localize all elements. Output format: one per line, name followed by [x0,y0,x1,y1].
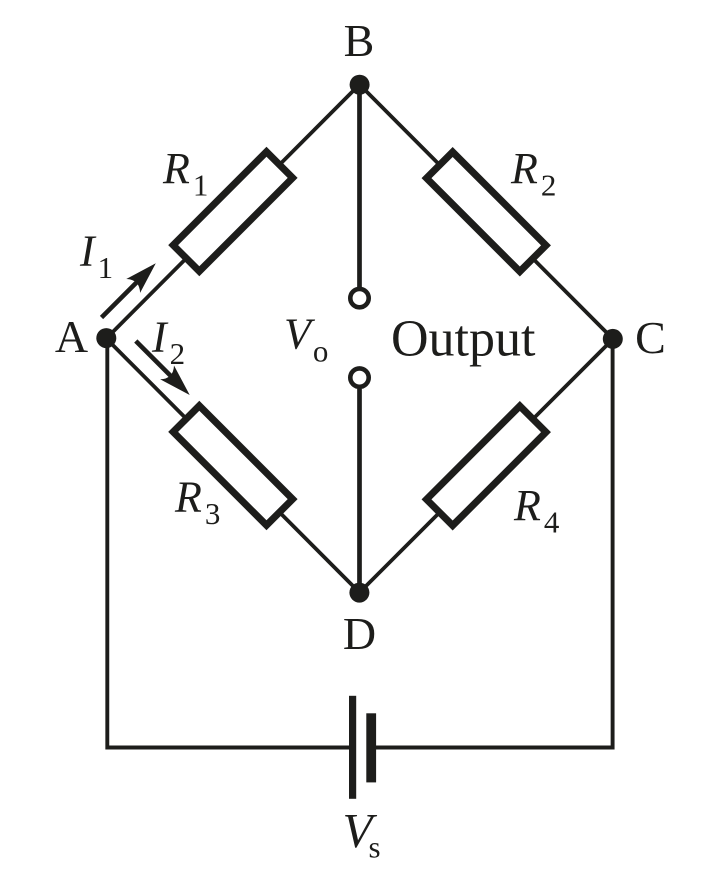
battery right plate [366,713,376,782]
svg-text:R4: R4 [513,481,560,540]
svg-text:Vs: Vs [343,803,381,865]
wire A down and across to battery left plate [107,345,349,748]
current arrow I1 head [126,256,162,292]
svg-text:I1: I1 [79,227,113,286]
lower output terminal [350,368,368,386]
battery left plate [349,696,356,799]
wire B to upper output terminal [357,85,362,288]
wire A-B [106,85,359,339]
resistor R1 body [173,152,293,272]
wire C down and across to battery right plate [376,345,613,748]
wire A-D [106,339,359,593]
current arrow I2 head [160,365,196,401]
upper output terminal [350,289,368,307]
resistor R3 body [173,406,293,526]
node D [349,583,369,603]
node C [603,329,623,349]
resistor R2 body [426,152,546,272]
current arrow I2 shaft [136,341,182,387]
resistor R4 body [426,406,546,526]
svg-text:R2: R2 [510,144,556,203]
node B [350,75,370,95]
svg-text:D: D [343,608,376,659]
svg-text:A: A [55,311,88,362]
wire B-C [360,85,614,340]
svg-text:C: C [635,312,666,363]
current arrow I1 shaft [102,272,148,318]
svg-text:R1: R1 [162,144,208,203]
svg-text:B: B [344,15,375,66]
svg-text:R3: R3 [174,473,220,532]
wire D-C [360,339,614,593]
svg-text:Vo: Vo [284,310,328,369]
node A [96,328,116,348]
svg-text:Output: Output [391,311,536,368]
wire lower output terminal to D [357,389,362,593]
